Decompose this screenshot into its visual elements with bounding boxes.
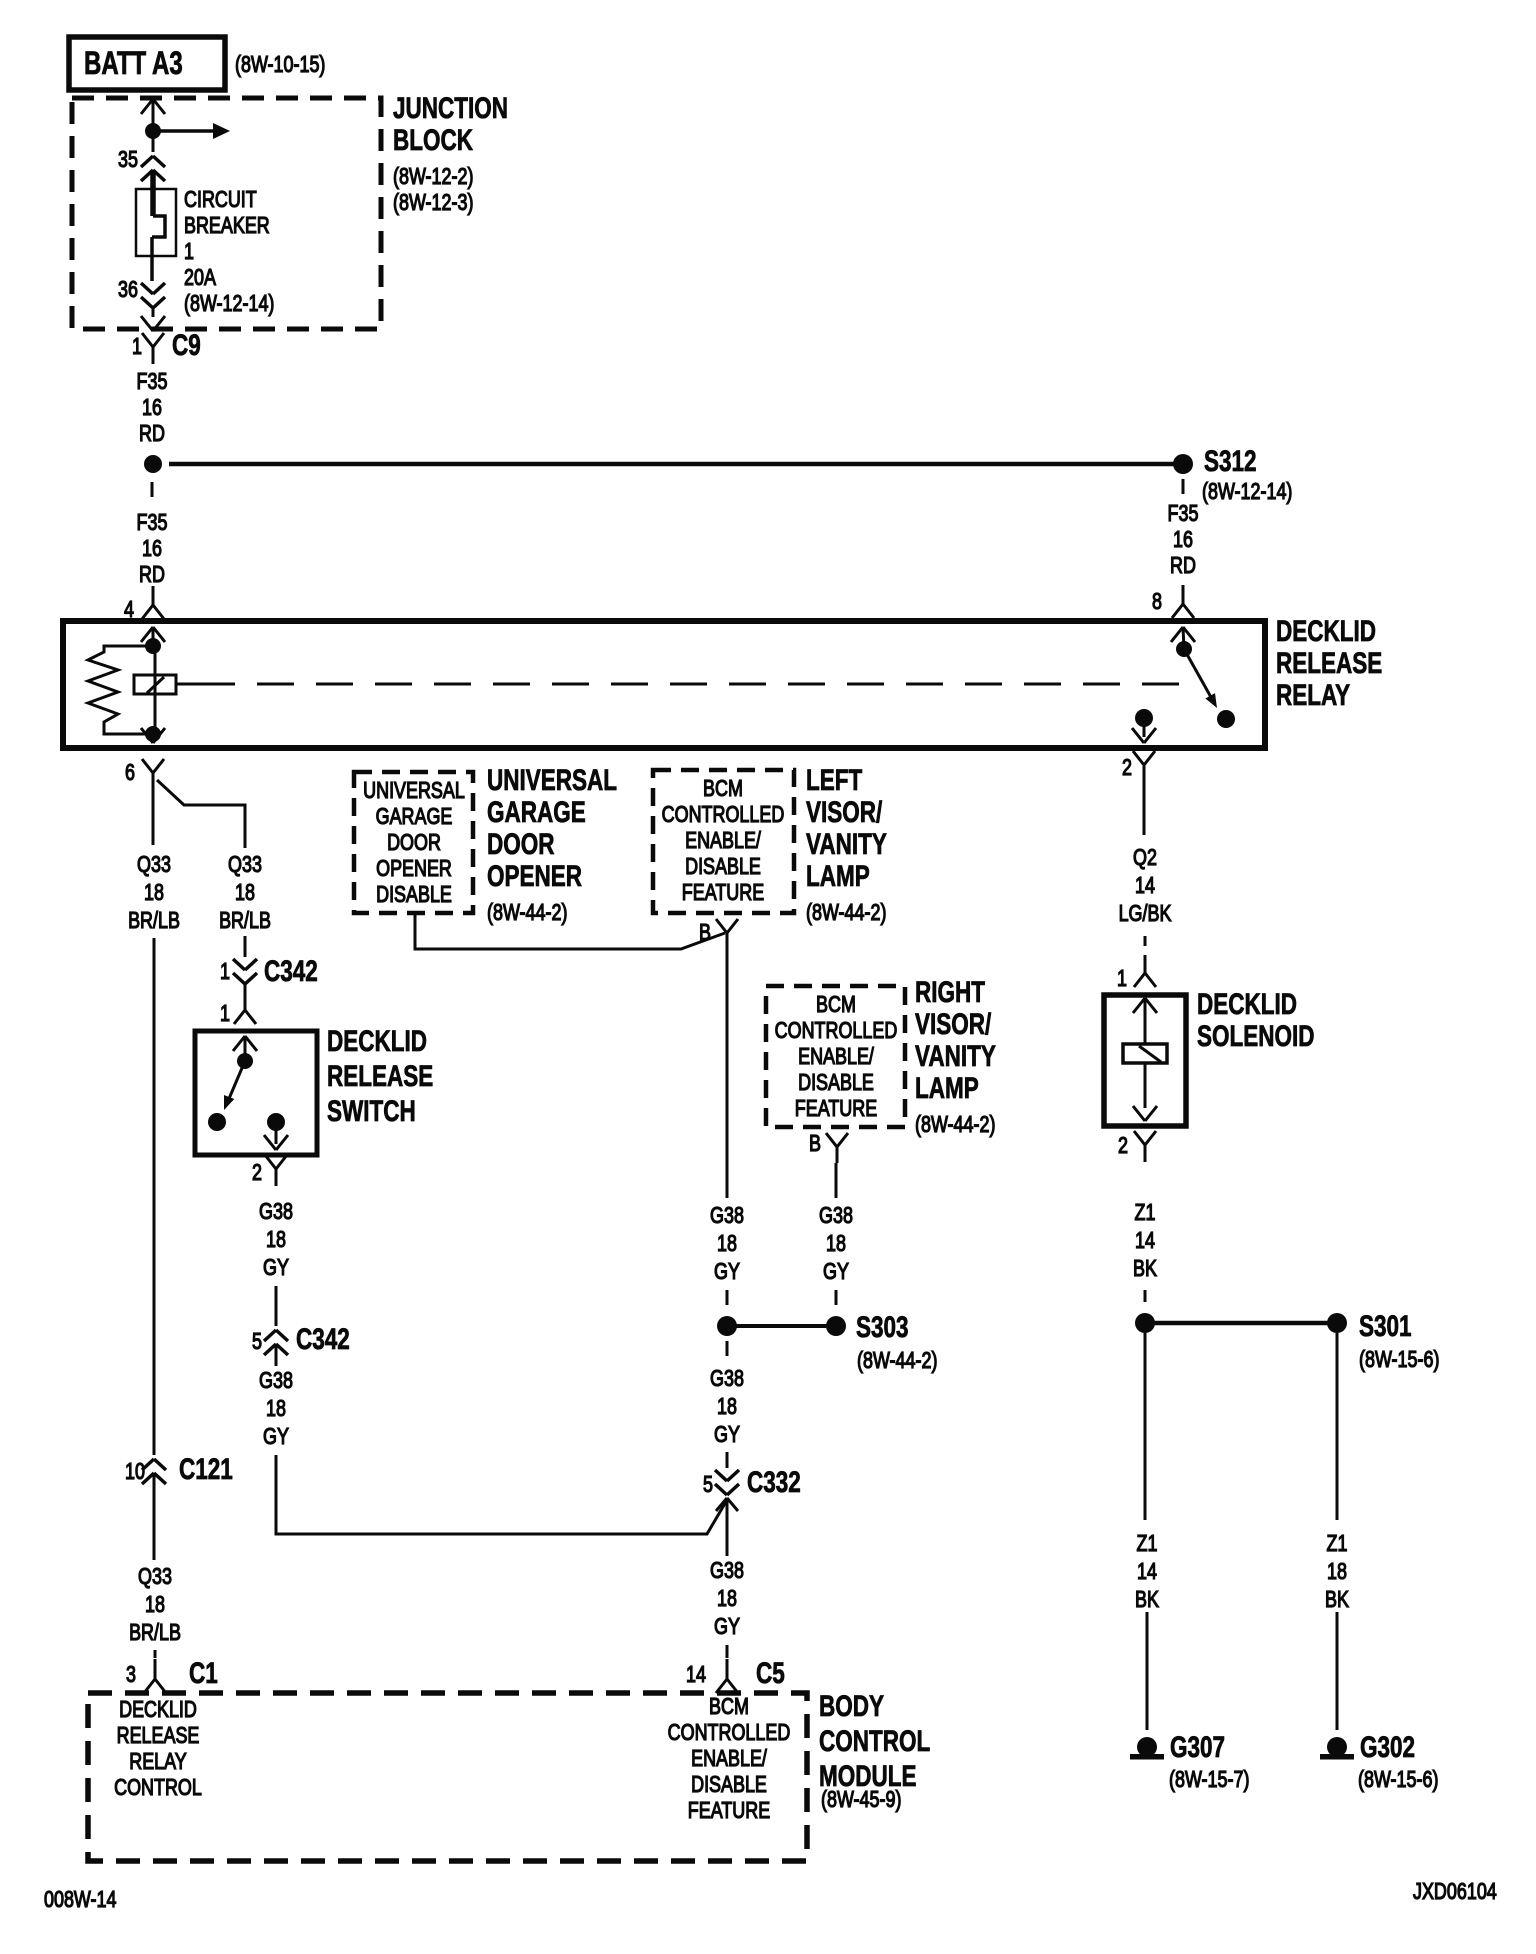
sheet number 008W-14	[44, 1886, 116, 1912]
splice S301 dot	[1327, 1313, 1347, 1333]
wire label G38 bottom	[657, 1556, 797, 1640]
wire label G38 below C342-5	[206, 1366, 346, 1450]
wire Q2 from relay pin 2	[1143, 781, 1146, 835]
pin 1 solenoid	[1018, 965, 1127, 991]
ref BCM	[821, 1786, 901, 1812]
label BODY CONTROL MODULE	[819, 1689, 930, 1794]
ref G302	[1358, 1766, 1438, 1792]
splice S303 wire	[727, 1324, 836, 1328]
ref UGDO	[487, 899, 567, 925]
relay coil resistor	[88, 646, 153, 734]
decklid solenoid box	[1104, 995, 1186, 1126]
relay coil bottom junction dot	[145, 726, 161, 742]
relay pin 8 fork	[1172, 588, 1194, 618]
connector C5	[756, 1658, 785, 1690]
battery feed box BATT A3	[69, 37, 225, 90]
wire junction dot to pin 35	[152, 131, 155, 152]
wire Q33 above C1	[154, 1650, 157, 1658]
relay pin 2 exit arrowhead	[1132, 718, 1156, 743]
ground G302	[1360, 1732, 1415, 1764]
wire label G38 left BCM	[657, 1201, 797, 1285]
wire F35 to relay pin 4	[152, 586, 155, 590]
label DECKLID RELEASE RELAY	[1276, 616, 1382, 712]
relay internal dashed control line	[176, 683, 1198, 686]
junction dot feed node in junction block	[145, 123, 161, 139]
switch pin 2 exit arrowhead	[264, 1122, 288, 1150]
pin 2 switch	[153, 1159, 262, 1185]
wire Q33 left branch	[152, 789, 155, 845]
connector C9 pin 1 fork	[142, 333, 164, 364]
wire G38 above C5	[726, 1645, 729, 1658]
right BCM controlled enable/disable dashed box	[766, 986, 905, 1127]
pin 3 C1	[27, 1661, 136, 1687]
switch common contact dot	[237, 1053, 253, 1069]
pin 8	[1053, 588, 1162, 614]
wire Q33 below C121	[153, 1473, 156, 1560]
pin 36	[29, 276, 138, 302]
connector C121	[179, 1454, 233, 1486]
wire label F35 16 RD right	[1113, 500, 1253, 578]
switch pin 2 fork	[265, 1155, 287, 1186]
ref right visor	[915, 1111, 995, 1137]
connector C342 pin1	[264, 956, 318, 988]
splice S301 left dot	[1135, 1313, 1155, 1333]
decklid solenoid pin 1 fork	[1134, 955, 1156, 987]
pin B left	[602, 919, 711, 945]
connector C342 pin 5 double chevron	[264, 1330, 288, 1355]
decklid release switch pin 1 fork	[234, 1010, 256, 1024]
wire UGDO disable to BCM enable node	[415, 913, 725, 949]
connector pin 35 double chevron	[141, 156, 165, 181]
label UNIVERSAL GARAGE DOOR OPENER	[487, 765, 617, 893]
wire label Q33 bottom	[85, 1562, 225, 1646]
ground G307	[1170, 1732, 1225, 1764]
ref S301	[1359, 1346, 1439, 1372]
wire G38 from pin B down	[726, 949, 729, 1198]
pin 1 C9	[33, 333, 142, 359]
dash below F35 splice dot	[151, 482, 154, 497]
right BCM box text	[766, 991, 906, 1121]
right BCM pin B fork	[826, 1133, 848, 1163]
solenoid coil winding symbol	[1123, 1044, 1167, 1063]
wire pin 35 to circuit breaker	[150, 170, 156, 216]
wire label G38 right BCM	[766, 1201, 906, 1285]
relay pin 4 fork	[142, 589, 164, 619]
ref S312	[1202, 478, 1292, 504]
wire label Z1 14 BK lower	[1077, 1529, 1217, 1613]
wire G38 above C332	[726, 1452, 729, 1468]
pin 2 relay	[1023, 754, 1132, 780]
wire G38 below C342 pin 5	[275, 1344, 278, 1366]
dash above S303 left	[726, 1290, 729, 1305]
connector C342 pin5	[296, 1324, 350, 1356]
wire label G38 below S303	[657, 1364, 797, 1448]
ground G302 symbol	[1320, 1737, 1354, 1760]
switch pin 2 contact dot	[267, 1113, 285, 1131]
wire Q33 above C342	[244, 936, 247, 957]
switch lower-left contact dot	[208, 1113, 226, 1131]
relay switch movable arm arrow	[1184, 649, 1217, 708]
wire F35 to relay pin 8	[1182, 585, 1185, 592]
connector C1	[189, 1658, 218, 1690]
relay pin 2 fork	[1133, 751, 1155, 781]
relay pin 6 fork	[142, 759, 164, 789]
splice S312 dot	[1173, 454, 1193, 474]
relay pin 6 exit arrowhead	[141, 728, 165, 743]
solenoid pin 2 exit arrowhead	[1133, 1106, 1157, 1121]
dash above S301	[1144, 1290, 1147, 1302]
ref (8W-10-15)	[235, 51, 325, 77]
wire label Z1 18 BK	[1267, 1529, 1407, 1613]
splice S303 dot	[826, 1316, 846, 1336]
wire from BATT A3 into junction block with arrowhead	[141, 99, 165, 131]
decklid release relay box	[63, 621, 1265, 748]
connector C9	[172, 330, 201, 362]
relay pin 8 entry arrowhead	[1171, 627, 1195, 649]
left BCM controlled enable/disable dashed box	[653, 770, 794, 913]
solenoid pin 2 fork	[1134, 1131, 1156, 1162]
label LEFT VISOR VANITY LAMP	[806, 765, 887, 893]
wire arrow to other circuits	[153, 123, 230, 139]
arrow leaving junction block	[141, 316, 165, 331]
ref G307	[1169, 1766, 1249, 1792]
drawing id JXD06104	[1413, 1878, 1497, 1904]
dash below S312	[1182, 479, 1185, 494]
wire label Q2	[1075, 843, 1215, 927]
circuit breaker label	[184, 186, 274, 316]
connector C121 pin 10 double chevron	[142, 1459, 166, 1484]
switch pin 1 entry arrowhead	[233, 1036, 257, 1061]
body control module dashed box	[88, 1693, 807, 1861]
switch movable arm arrow	[224, 1061, 245, 1110]
wire G38 below switch	[275, 1286, 278, 1326]
dash above solenoid pin 1	[1144, 936, 1147, 946]
connector C342 pin 1 double chevron	[233, 959, 257, 984]
ref S303	[857, 1347, 937, 1373]
wire label F35 16 RD upper	[82, 368, 222, 446]
wire Z1 to ground G307	[1146, 1612, 1149, 1730]
splice S312	[1204, 446, 1257, 478]
pin 14 C5	[597, 1661, 706, 1687]
pin 2 solenoid	[1019, 1132, 1128, 1158]
connector C5 pin 14 fork	[716, 1659, 738, 1693]
pin 4	[25, 596, 134, 622]
splice S301	[1359, 1311, 1412, 1343]
relay coil winding symbol	[134, 646, 176, 734]
pin 5 C342	[153, 1328, 262, 1354]
label RIGHT VISOR VANITY LAMP	[915, 977, 996, 1105]
pin B right	[712, 1130, 821, 1156]
label DECKLID RELEASE SWITCH	[327, 1024, 433, 1129]
wire G38 right BCM to S303	[835, 1163, 838, 1198]
BCM pin B fork	[716, 919, 738, 949]
connector C1 pin 3 fork	[144, 1659, 166, 1693]
BCM box enable text	[659, 1693, 799, 1823]
refs junction block	[393, 163, 473, 215]
pin 1 switch	[121, 1000, 230, 1026]
solenoid pin 1 entry arrowhead	[1133, 998, 1157, 1045]
left BCM box text	[653, 775, 793, 905]
connector pin 36 double chevron	[141, 283, 165, 308]
label JUNCTION BLOCK	[393, 93, 508, 157]
pin 1 C342	[121, 958, 230, 984]
decklid release switch box	[195, 1031, 317, 1155]
connector C332	[747, 1467, 801, 1499]
dash above S303 right	[835, 1290, 838, 1305]
universal garage door opener disable dashed box	[354, 772, 473, 913]
C332 lower fork	[716, 1498, 738, 1556]
UGDO disable box text	[344, 777, 484, 907]
wire Z1 18 BK below S301	[1336, 1333, 1339, 1520]
relay pin 4 entry arrowhead	[141, 627, 165, 646]
solenoid internal wire	[1144, 1063, 1147, 1108]
wire Q33 above C121	[153, 938, 156, 1455]
wire Q33 right branch to C342	[157, 780, 245, 848]
relay pin 2 contact dot	[1135, 709, 1153, 727]
wire C342 to switch pin 1	[244, 984, 247, 1010]
wire Z1 to ground G302	[1336, 1612, 1339, 1730]
splice S303 left dot	[717, 1316, 737, 1336]
top distribution wire F35 16 RD to S312	[169, 462, 1183, 467]
wire label Z1 14 BK upper	[1075, 1198, 1215, 1282]
wire label Q33 left	[84, 850, 224, 934]
relay switch fixed contact dot	[1217, 710, 1235, 728]
relay switch common dot	[1176, 641, 1192, 657]
dash below S303	[726, 1341, 729, 1356]
junction block dashed outline	[72, 98, 381, 329]
connector C332 pin 5 double chevron	[715, 1470, 739, 1495]
relay coil top junction dot	[145, 638, 161, 654]
wire pin 36 to junction block edge	[152, 308, 155, 317]
label DECKLID SOLENOID	[1197, 989, 1315, 1053]
pin 6	[26, 759, 135, 785]
pin 5 C332	[604, 1471, 713, 1497]
splice dot on F35 feed	[144, 455, 162, 473]
wire label G38 below switch	[206, 1197, 346, 1281]
circuit breaker 1 20A	[136, 189, 176, 281]
pin 35	[29, 146, 138, 172]
text BATT A3	[84, 46, 183, 80]
wire G38 to junction with C332 branch	[276, 1455, 727, 1534]
ref left visor	[806, 899, 886, 925]
splice S301 wire	[1145, 1321, 1337, 1326]
pin 10 C121	[36, 1458, 145, 1484]
wire label Q33 right	[175, 850, 315, 934]
ground G307 symbol	[1130, 1737, 1164, 1760]
splice S303	[856, 1312, 909, 1344]
wire label F35 16 RD lower	[82, 509, 222, 587]
wire Z1 14 BK below S301	[1144, 1333, 1147, 1520]
BCM box decklid relay control text	[88, 1696, 228, 1800]
